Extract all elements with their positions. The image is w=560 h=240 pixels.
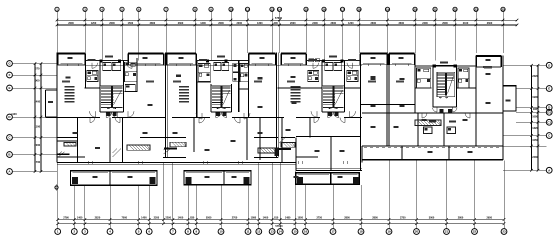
wall grid D [46, 113, 504, 118]
wall above counter unit1 [57, 140, 78, 142]
grid bubble bottom 7 [170, 163, 176, 235]
svg-text:2320: 2320 [532, 75, 538, 78]
terrace hatch [364, 146, 499, 148]
flue cell core2 right [233, 63, 239, 81]
svg-text:17: 17 [341, 7, 345, 11]
stair direction arrows [217, 108, 226, 110]
svg-text:830: 830 [190, 217, 195, 220]
svg-text:2290: 2290 [165, 217, 171, 220]
svg-text:2750: 2750 [316, 217, 322, 220]
bottom dimension band [56, 218, 505, 225]
svg-text:2600: 2600 [330, 22, 336, 25]
door swing arc [115, 118, 120, 123]
svg-text:11: 11 [246, 230, 250, 234]
svg-text:2600: 2600 [68, 22, 74, 25]
svg-text:5500: 5500 [206, 217, 212, 220]
wall grid B kitchen [57, 156, 318, 158]
grid bubble top 1 [55, 7, 59, 53]
right outer wall [502, 56, 504, 146]
stair direction arrows [439, 97, 448, 99]
svg-text:2600: 2600 [290, 22, 296, 25]
top balcony box 3 [166, 53, 196, 64]
thick wall B unit1 [57, 153, 70, 155]
svg-text:C1: C1 [547, 120, 551, 124]
svg-text:2200: 2200 [154, 217, 160, 220]
grid bubble top 7 [164, 7, 168, 53]
grid bubble bottom 13 [269, 163, 275, 235]
core front wall [85, 60, 128, 62]
interior wall [417, 113, 419, 146]
top balcony box 8 (right end) [476, 56, 501, 67]
left dimension band [34, 62, 43, 173]
svg-text:1400: 1400 [178, 217, 184, 220]
bay window marks [309, 59, 320, 62]
grid bubble top 6 [137, 7, 141, 60]
door swing arc [465, 113, 470, 118]
grid bubble top 19 [385, 7, 389, 53]
left bay balcony [46, 90, 58, 117]
grid bubble right G [546, 62, 552, 68]
top balcony box 5 [281, 53, 306, 64]
interior wall [193, 118, 195, 153]
top balcony box 1 [58, 53, 86, 64]
grid bubble bottom 23 [501, 161, 507, 235]
right bay balcony [503, 86, 516, 111]
bath right of core2 [240, 63, 248, 81]
svg-text:20: 20 [415, 230, 419, 234]
svg-text:1400: 1400 [77, 217, 83, 220]
svg-text:2800: 2800 [458, 217, 464, 220]
top dimension band [56, 19, 519, 26]
grid bubble top 5 [120, 7, 124, 60]
left annotation 1100 [11, 113, 17, 116]
terrace bottom wall [362, 146, 503, 160]
grid bubble bottom aux [163, 163, 165, 224]
svg-text:23: 23 [502, 230, 506, 234]
svg-text:13: 13 [270, 230, 274, 234]
svg-text:3600: 3600 [398, 22, 404, 25]
right dimension band [530, 64, 539, 172]
kitchen counter 2 [127, 145, 150, 150]
svg-text:1320: 1320 [532, 127, 538, 130]
svg-text:2430: 2430 [532, 156, 538, 159]
party wall unit2/3 [277, 53, 279, 158]
svg-text:12: 12 [257, 230, 261, 234]
grid bubble top 8 [193, 7, 197, 53]
bottom wall modules 1-2 [57, 162, 296, 164]
grid bubble top 11 [245, 7, 249, 53]
grid bubble top 21 [433, 7, 437, 60]
window dimension texts [62, 67, 492, 83]
core front wall [196, 60, 249, 62]
svg-text:25: 25 [501, 7, 505, 11]
vestibule door leaves [107, 113, 117, 116]
interior wall [360, 53, 362, 170]
left dimension numbers [34, 66, 40, 164]
svg-text:2700: 2700 [232, 217, 238, 220]
grid bubble top 9 [209, 7, 213, 60]
terrace top wall [362, 145, 503, 147]
door swing arc [235, 118, 241, 124]
svg-text:13: 13 [270, 7, 274, 11]
sink diagonal unit1 kitchen [113, 149, 122, 158]
svg-text:1300: 1300 [257, 22, 263, 25]
kitchen counter 6 [415, 120, 441, 126]
wall mid right rooms [361, 104, 416, 106]
sink diagonal unit1 [58, 152, 65, 158]
elevation annotation block [179, 86, 189, 102]
staircase core unit2 [197, 60, 239, 118]
svg-text:2000: 2000 [442, 22, 448, 25]
grid bubble bottom 21 [444, 161, 450, 235]
rear window ticks [88, 161, 347, 164]
svg-text:1050: 1050 [532, 139, 538, 142]
grid bubble bottom 2 [71, 185, 77, 234]
svg-text:19: 19 [387, 230, 391, 234]
svg-text:2600: 2600 [218, 22, 224, 25]
door swing arc [422, 113, 427, 118]
svg-text:17: 17 [331, 230, 335, 234]
apartment door core4 [433, 108, 458, 113]
svg-text:1480: 1480 [285, 217, 291, 220]
grid bubble top 13 [270, 7, 274, 53]
right dimension numbers [532, 75, 538, 159]
interior wall [122, 118, 124, 163]
svg-text:E: E [548, 87, 550, 91]
svg-text:22: 22 [453, 7, 457, 11]
grid bubble bottom 3 [82, 185, 88, 234]
svg-text:15: 15 [304, 7, 308, 11]
vestibule door leaves [216, 113, 226, 116]
planter box 2 [150, 177, 156, 184]
interior wall [443, 113, 445, 146]
sink diagonal unit2 [164, 147, 173, 154]
wall grid E [85, 88, 477, 91]
grid bubble top 22 [453, 7, 457, 60]
stair direction arrows [107, 108, 116, 110]
grid bubble bottom 11 [245, 185, 251, 234]
svg-text:2950: 2950 [486, 217, 492, 220]
svg-text:1100: 1100 [11, 113, 17, 116]
bottom balcony 5 [296, 173, 331, 184]
terrace divider walls [402, 146, 449, 160]
svg-text:2000: 2000 [236, 22, 242, 25]
grid bubble top 25 [501, 7, 505, 53]
grid bubble right E [546, 86, 552, 92]
elevation annotation block [291, 86, 301, 102]
svg-text:23: 23 [474, 7, 478, 11]
top balcony box 7 [389, 53, 415, 64]
svg-text:2800: 2800 [150, 22, 156, 25]
grid bubble top 10 [229, 7, 233, 60]
left outer wall [56, 53, 58, 163]
svg-text:14: 14 [279, 230, 283, 234]
module3 bottom wall [296, 170, 362, 172]
elevation marker [55, 184, 58, 191]
grid bubble left B [7, 152, 57, 158]
svg-text:480: 480 [533, 108, 538, 111]
planter box 5 [297, 177, 303, 184]
thick counter unit3 [279, 148, 292, 150]
bottom dimension numbers [63, 217, 492, 220]
svg-text:1000: 1000 [532, 115, 538, 118]
grid bubble left E [7, 85, 57, 91]
grid bubble bottom 20 [414, 161, 420, 235]
kitchen counter 3 [170, 142, 186, 147]
interior wall [248, 53, 250, 117]
level text right room [483, 66, 492, 68]
grid bubble top 16 [322, 7, 326, 60]
grid bubble left A [7, 169, 57, 175]
apartment door core3 [311, 111, 356, 117]
svg-text:1400: 1400 [141, 217, 147, 220]
shaft labels [88, 56, 449, 64]
door swing arc [199, 118, 205, 124]
svg-text:1200: 1200 [200, 22, 206, 25]
core 4 front wall [415, 65, 477, 67]
svg-text:E: E [8, 86, 10, 90]
svg-text:2820: 2820 [95, 217, 101, 220]
interior wall [330, 136, 332, 170]
apartment door core1 [90, 111, 135, 117]
grid bubble right C [546, 133, 552, 139]
bath right of core1 [125, 62, 137, 81]
svg-text:2400: 2400 [422, 22, 428, 25]
svg-text:2600: 2600 [109, 22, 115, 25]
svg-text:3000: 3000 [429, 217, 435, 220]
grid bubble left F [7, 72, 57, 78]
bath right of core4 [458, 68, 469, 88]
bottom wall transition [361, 146, 363, 163]
grid bubble top 14 [277, 7, 281, 53]
svg-text:2750: 2750 [400, 217, 406, 220]
grid bubble right C1 [546, 119, 552, 125]
grid bubble bottom 22 [472, 161, 478, 235]
interior wall [109, 118, 111, 163]
svg-text:1200: 1200 [91, 22, 97, 25]
door swing arc [314, 118, 319, 123]
svg-text:10: 10 [219, 230, 223, 234]
sink diagonal unit3 [279, 137, 287, 144]
svg-text:16: 16 [304, 230, 308, 234]
svg-text:F: F [9, 73, 11, 77]
svg-text:18: 18 [357, 7, 361, 11]
stair shaft upper boxes [325, 63, 342, 71]
interior wall [77, 117, 79, 163]
svg-text:2400: 2400 [312, 22, 318, 25]
grid bubble top 3 [83, 7, 87, 53]
grid bubble bottom 16 [303, 185, 309, 234]
grid bubble top 18 [357, 7, 361, 53]
grid bubble right D1 [546, 109, 552, 115]
svg-text:21: 21 [433, 7, 437, 11]
interior wall [475, 67, 477, 146]
top balcony box 4 [249, 53, 276, 64]
top balcony box 6 [360, 53, 388, 64]
bath right of core3 [347, 70, 358, 81]
entry door arcs core1 [92, 63, 132, 69]
bath left of core4 [417, 68, 431, 88]
kitchen counter 4 [258, 148, 278, 153]
svg-text:2100: 2100 [463, 22, 469, 25]
grid bubble right A [546, 167, 552, 173]
staircase core unit1 [85, 60, 123, 118]
core front wall [306, 60, 360, 62]
grid bubble bottom 6 [146, 185, 152, 234]
front window line [57, 64, 362, 66]
svg-text:2800: 2800 [344, 217, 350, 220]
svg-text:2600: 2600 [370, 22, 376, 25]
grid bubble bottom 8 [185, 185, 191, 234]
svg-text:2000: 2000 [34, 143, 40, 147]
wall right of core1 bath [136, 58, 138, 92]
svg-text:20: 20 [413, 7, 417, 11]
top overall dimension 57600 [275, 16, 283, 20]
bath left of core1 [87, 70, 98, 81]
bottom balcony 2 [110, 171, 157, 185]
interior wall [295, 138, 297, 162]
bottom balcony 3 [184, 171, 224, 185]
apartment door core2 [196, 113, 250, 119]
party wall unit1/2 [166, 53, 168, 158]
grid bubble bottom 5 [136, 185, 142, 234]
svg-text:57600: 57600 [275, 16, 283, 20]
room labels [48, 57, 511, 178]
staircase core unit3 [322, 60, 345, 118]
svg-text:2400: 2400 [34, 100, 40, 104]
wall grid C [57, 136, 295, 138]
grid bubble left D [7, 114, 46, 120]
stair direction arrows [329, 108, 338, 110]
grid bubble left C [7, 135, 57, 141]
grid bubble bottom 19 [386, 161, 392, 235]
svg-text:1080: 1080 [251, 217, 257, 220]
svg-text:7000: 7000 [122, 217, 128, 220]
thick counter unit2 [164, 148, 177, 150]
grid bubble bottom 12 [256, 163, 262, 235]
bath cell core2 left [198, 63, 210, 81]
grid bubble top 15 [304, 7, 308, 53]
module3 wall C2 [296, 135, 360, 137]
svg-text:2790: 2790 [63, 217, 69, 220]
planter box 6 [353, 177, 359, 184]
window mullion ticks [67, 64, 408, 66]
svg-text:10: 10 [229, 7, 233, 11]
stove unit2 [275, 149, 279, 157]
grid bubble bottom 15 [292, 171, 298, 235]
interior wall [281, 118, 283, 163]
stair shaft upper boxes [214, 63, 229, 71]
washroom below core1 right [125, 85, 135, 92]
svg-text:11: 11 [246, 7, 249, 11]
svg-text:2600: 2600 [178, 22, 184, 25]
top dimension numbers [68, 22, 493, 25]
bath left of core3 [308, 70, 319, 81]
svg-text:57600: 57600 [275, 224, 283, 228]
grid bubble top 4 [100, 7, 104, 60]
bottom balcony 1 [71, 171, 111, 185]
module3 bottom sill line [296, 167, 362, 169]
grid bubble top 23 [474, 7, 478, 53]
grid bubble bottom 18 [358, 185, 364, 234]
svg-text:1200: 1200 [348, 22, 354, 25]
stair shaft upper boxes [103, 63, 121, 71]
svg-text:16: 16 [322, 7, 326, 11]
interior wall [309, 118, 311, 138]
vestibule door leaves [328, 113, 338, 116]
bottom overall dimension 57600 [275, 224, 283, 228]
bottom balcony 6 [331, 173, 360, 184]
svg-text:2600: 2600 [487, 22, 493, 25]
kitchen counter 1 [64, 143, 76, 146]
planter box 4 [244, 177, 250, 184]
top balcony box 2 [128, 53, 164, 64]
interior wall [246, 118, 248, 161]
svg-text:1400: 1400 [263, 217, 269, 220]
svg-text:22: 22 [473, 230, 477, 234]
planter box 3 [185, 177, 191, 184]
grid bubble right D [546, 105, 552, 111]
right leader lines [503, 65, 546, 170]
interior wall [305, 53, 307, 65]
svg-text:2800: 2800 [372, 217, 378, 220]
planter box 1 [72, 177, 78, 184]
entry door arcs core3 [313, 63, 353, 69]
unit4 lower labels [429, 121, 456, 123]
bottom wall sill line [57, 164, 296, 166]
svg-text:19: 19 [386, 7, 390, 11]
svg-text:1700: 1700 [34, 160, 40, 164]
svg-text:570: 570 [35, 66, 40, 70]
interior wall [414, 53, 416, 113]
svg-text:14: 14 [278, 7, 282, 11]
svg-text:200: 200 [274, 22, 279, 25]
kitchen counter 5 [281, 143, 295, 148]
svg-text:18: 18 [359, 230, 363, 234]
grid bubble bottom 9 [193, 185, 199, 234]
grid bubble top 20 [413, 7, 417, 53]
svg-text:1500: 1500 [128, 22, 134, 25]
grid bubble bottom 14 [277, 163, 283, 235]
svg-text:15: 15 [293, 230, 297, 234]
svg-text:1100: 1100 [34, 124, 40, 128]
party wall unit3/4 [387, 53, 389, 146]
staircase core unit4 [433, 65, 457, 114]
grid bubble left G [7, 61, 57, 67]
module3 step wall [295, 162, 297, 171]
svg-text:1050: 1050 [297, 217, 303, 220]
door swing arc [340, 118, 345, 123]
door swing arc [90, 118, 95, 123]
unit4 lower fixtures [424, 127, 456, 134]
grid bubble top 17 [340, 7, 344, 60]
grid bubble bottom 1 [55, 163, 61, 235]
svg-text:900: 900 [35, 79, 40, 83]
svg-text:D1: D1 [547, 110, 551, 114]
interior wall [259, 118, 261, 161]
bottom balcony 4 [224, 171, 251, 185]
grid bubble bottom 4 [107, 185, 113, 234]
grid bubble bottom 17 [330, 185, 336, 234]
elevation annotation block [65, 86, 75, 102]
svg-text:1900: 1900 [532, 96, 538, 99]
svg-text:21: 21 [445, 230, 449, 234]
svg-text:810: 810 [274, 217, 279, 220]
grid bubble bottom 10 [218, 185, 224, 234]
